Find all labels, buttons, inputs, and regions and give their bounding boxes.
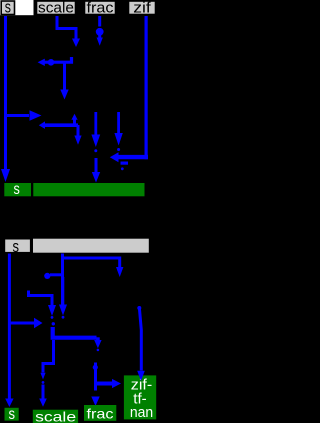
node frac output label (84, 405, 116, 421)
hook mark (121, 162, 129, 165)
tip dot E4 (51, 316, 54, 319)
tip dot mid b (117, 148, 120, 151)
small dot E6b (42, 381, 45, 384)
wire s2 vertical (8, 254, 11, 399)
svg-text:frac: frac (87, 405, 114, 421)
tip dot E6a (97, 349, 100, 352)
wire E6b lower (42, 385, 45, 399)
wire E2 left stub (50, 273, 63, 276)
svg-text:s: s (12, 237, 19, 256)
tip dot mid a (94, 149, 97, 152)
svg-text:scale: scale (35, 409, 76, 423)
arrowhead into zif-tf-nan left (112, 379, 121, 388)
svg-text:zif: zif (133, 0, 151, 16)
wire mid arrow a (94, 112, 97, 136)
arrowhead into green s box (1, 169, 10, 182)
small arrowhead E6b (40, 373, 45, 380)
wire E7 branch right (96, 382, 113, 386)
arrowhead into frac label (91, 397, 99, 407)
junction dot (48, 59, 55, 66)
arrowhead down scale chain (72, 39, 80, 48)
node scale (top input box) (37, 0, 76, 16)
wire from scale node going left (45, 57, 72, 62)
white strip top-left (0, 0, 34, 15)
arrowhead E6a down (94, 340, 101, 348)
svg-text:nan: nan (130, 404, 153, 421)
wire E8 zif down (139, 307, 141, 371)
node scale output label (33, 409, 78, 423)
gray input bar (bottom graph) (33, 239, 149, 253)
node s (top input box) (1, 0, 14, 17)
wire mid arrow b (117, 112, 120, 134)
junction dot E7 (93, 365, 98, 370)
svg-text:s: s (8, 406, 15, 423)
start bulge (137, 306, 141, 310)
arrowhead right at node A (30, 110, 42, 120)
arrowhead down T-drop (60, 90, 68, 100)
wire s2 branch right (9, 322, 34, 325)
riser up (73, 120, 76, 126)
wire scale chain (57, 16, 76, 39)
wire into green bar (95, 158, 98, 172)
wire frac chain (98, 16, 101, 38)
wire E7 frac chain (94, 363, 97, 391)
junction dot frac (96, 28, 104, 36)
node s output label (5, 406, 19, 423)
arrowhead into zif-tf-nan top (137, 371, 145, 381)
wire E3 continue down (61, 277, 64, 305)
arrowhead E3 (59, 305, 67, 316)
stray dot (121, 167, 124, 170)
svg-text:s: s (14, 181, 21, 198)
arrowhead left zif (110, 152, 119, 162)
wire T-drop down (63, 62, 66, 89)
gray input box s (bottom graph) (4, 237, 30, 256)
arrowhead E1 down (116, 267, 123, 277)
arrowhead up on riser (71, 114, 77, 120)
svg-text:s: s (5, 0, 11, 17)
arrowhead right branch (34, 318, 43, 328)
wire from gray bar down (continuous) (61, 254, 64, 305)
arrowhead left (38, 59, 45, 66)
node zif-tf-nan (green box) (124, 375, 156, 421)
arrowhead into s label (5, 399, 13, 408)
svg-text:frac: frac (87, 0, 115, 16)
node zif (top input box) (129, 0, 156, 16)
wire lower-left horizontal (45, 123, 79, 127)
wire E6a to frac node (53, 327, 97, 338)
start dot E6a (52, 322, 55, 325)
elbow E6a (96, 337, 100, 340)
arrowhead mid b (114, 133, 122, 146)
arrowhead down right end (74, 136, 81, 145)
dot E2 (44, 273, 50, 279)
tip dot E3 (62, 316, 65, 319)
arrowhead into green bar (92, 172, 100, 183)
wire E1 gray bar to right down (62, 258, 119, 267)
wire s vertical (4, 16, 7, 169)
wire down-turn right end (77, 125, 80, 136)
green output box s (top graph) (4, 181, 31, 198)
green output bar (top graph) (33, 183, 144, 196)
arrowhead down frac (97, 38, 103, 46)
arrowhead into scale label (39, 399, 47, 407)
wire zif chain vertical (145, 16, 148, 159)
wire zif chain horizontal (118, 155, 148, 159)
wire s branch right (6, 114, 30, 117)
node frac (top input box) (85, 0, 116, 16)
arrowhead mid a (91, 135, 100, 148)
wire E6b to scale (43, 340, 54, 373)
arrowhead E4 (48, 305, 56, 316)
svg-text:scale: scale (38, 0, 74, 16)
arrowhead left on lower-left wire (39, 121, 45, 128)
wire E4 corner (29, 291, 53, 306)
